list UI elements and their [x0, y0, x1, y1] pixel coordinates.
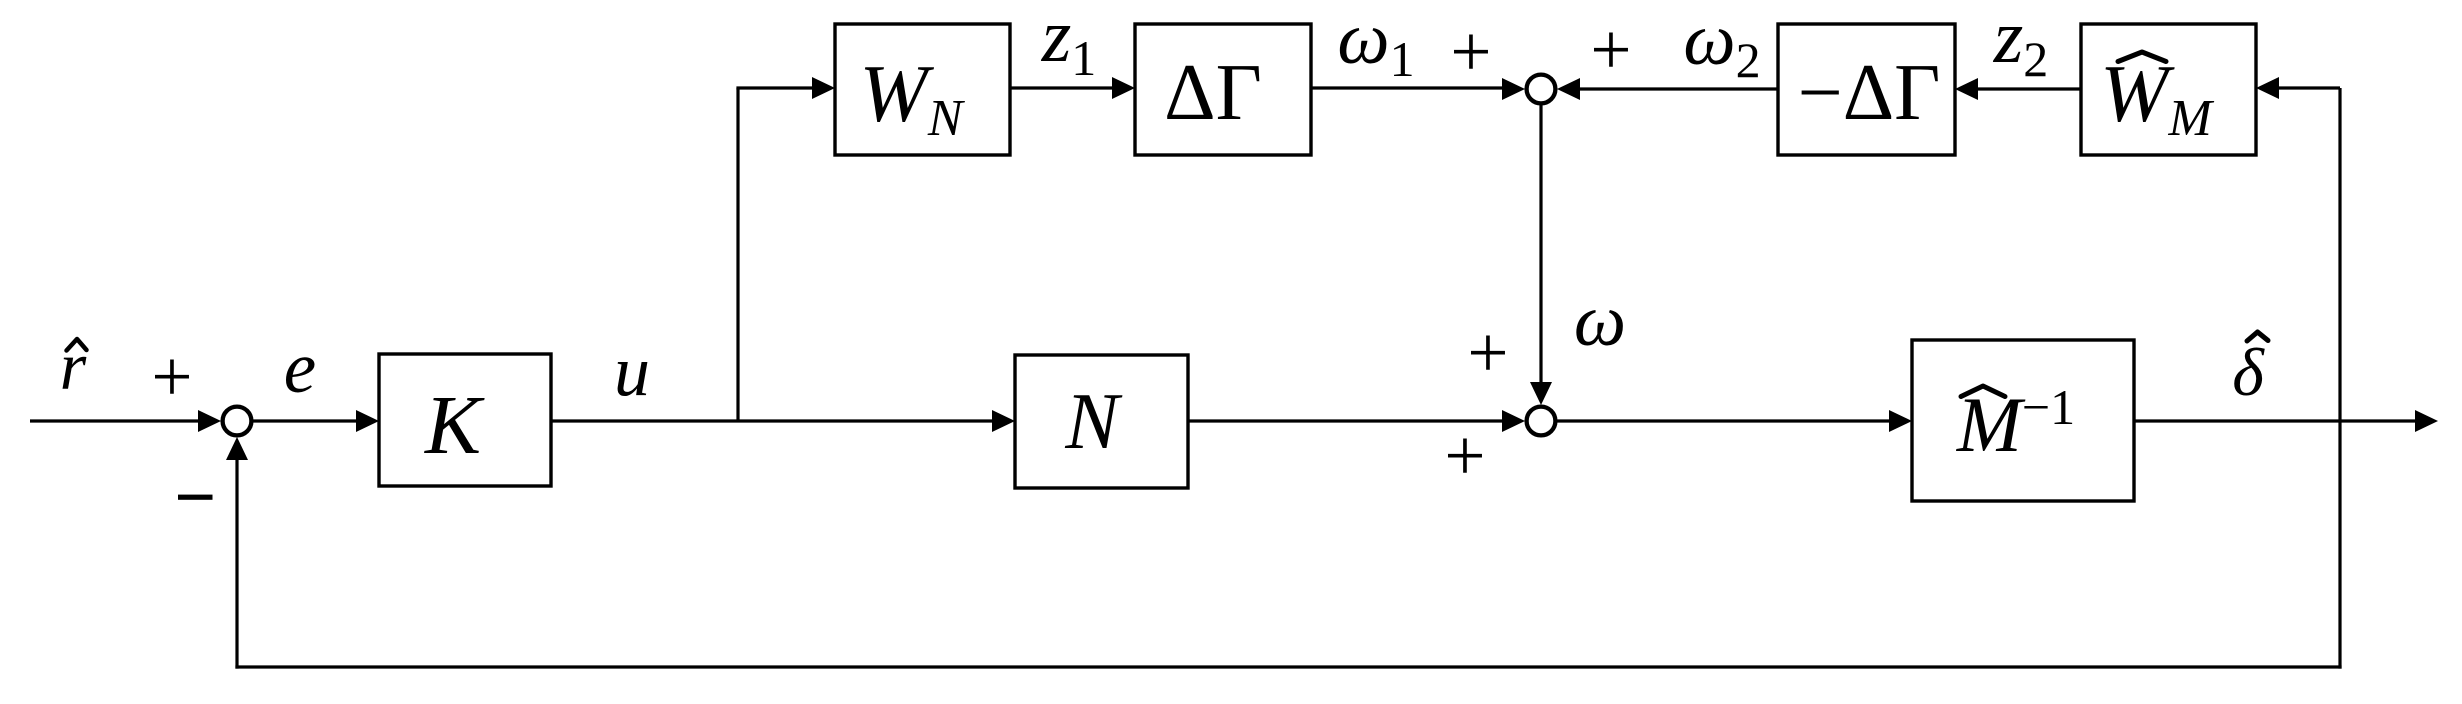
summing junction S1 — [223, 407, 252, 436]
arrowhead into S1 — [198, 410, 221, 432]
svg-text:ΔΓ: ΔΓ — [1164, 49, 1262, 137]
block WN — [835, 24, 1010, 155]
wire from N to S3 — [1188, 419, 1506, 422]
svg-text:r: r — [60, 328, 87, 404]
block DeltaGamma — [1135, 24, 1311, 155]
summing junction S2 — [1527, 75, 1556, 104]
arrowhead into Minv — [1889, 410, 1912, 432]
wire branch to WN — [736, 86, 815, 89]
wire e from S1 to K — [252, 419, 359, 422]
label minus at S1 — [178, 495, 213, 500]
svg-text:δ: δ — [2232, 334, 2265, 410]
wire omega1 from DeltaGamma to S2 — [1311, 86, 1506, 89]
wire omega2 from minusDeltaGamma to S2 — [1578, 87, 1778, 90]
wire bottom feedback horizontal — [235, 665, 2341, 668]
arrowhead into S2 right — [1557, 78, 1580, 100]
wire output delta from Minv to right edge — [2134, 419, 2418, 422]
wire from right feedback into WM — [2278, 86, 2340, 89]
wire u from K to N — [551, 419, 995, 422]
svg-text:ω: ω — [1574, 280, 1626, 362]
arrowhead into WM right — [2256, 77, 2279, 99]
wire z2 from WM to minusDeltaGamma — [1977, 87, 2081, 90]
svg-text:N: N — [1064, 378, 1123, 466]
hat over delta — [2247, 332, 2268, 341]
svg-text:K: K — [424, 379, 485, 472]
wire omega from S2 down to S3 — [1539, 104, 1542, 387]
svg-text:−ΔΓ: −ΔΓ — [1798, 49, 1941, 137]
hat over Minv M — [1961, 386, 2005, 397]
hat over r — [67, 339, 87, 351]
svg-text:u: u — [614, 331, 650, 411]
arrowhead into S3 top — [1530, 382, 1552, 405]
block minusDeltaGamma — [1778, 24, 1955, 155]
block K — [379, 354, 551, 486]
block Minv — [1912, 340, 2134, 501]
arrowhead into S1 bottom — [226, 437, 248, 460]
wire z1 from WN to DeltaGamma — [1010, 86, 1115, 89]
arrowhead into N — [992, 410, 1015, 432]
summing junction S3 — [1527, 407, 1556, 436]
node branch at u — [736, 88, 739, 421]
hat over WM — [2118, 52, 2166, 62]
block N — [1015, 355, 1188, 488]
arrowhead output right — [2415, 410, 2438, 432]
arrowhead into S3 left — [1502, 410, 1525, 432]
svg-text:+: + — [1450, 11, 1491, 92]
wire input r to summing junction S1 — [30, 419, 203, 422]
arrowhead into minusDeltaGamma — [1955, 78, 1978, 100]
svg-text:+: + — [151, 336, 192, 417]
wire from S3 to Minv — [1557, 419, 1892, 422]
svg-text:+: + — [1590, 9, 1631, 90]
svg-text:+: + — [1467, 312, 1508, 393]
wire right feedback vertical — [2338, 88, 2341, 669]
arrowhead into DeltaGamma — [1112, 77, 1135, 99]
arrowhead into WN — [812, 77, 835, 99]
svg-text:+: + — [1444, 415, 1485, 496]
arrowhead into K — [356, 410, 379, 432]
wire left feedback vertical up to S1 — [235, 455, 238, 669]
block WM — [2081, 24, 2256, 155]
arrowhead into S2 left — [1502, 78, 1525, 100]
svg-text:e: e — [284, 327, 316, 408]
